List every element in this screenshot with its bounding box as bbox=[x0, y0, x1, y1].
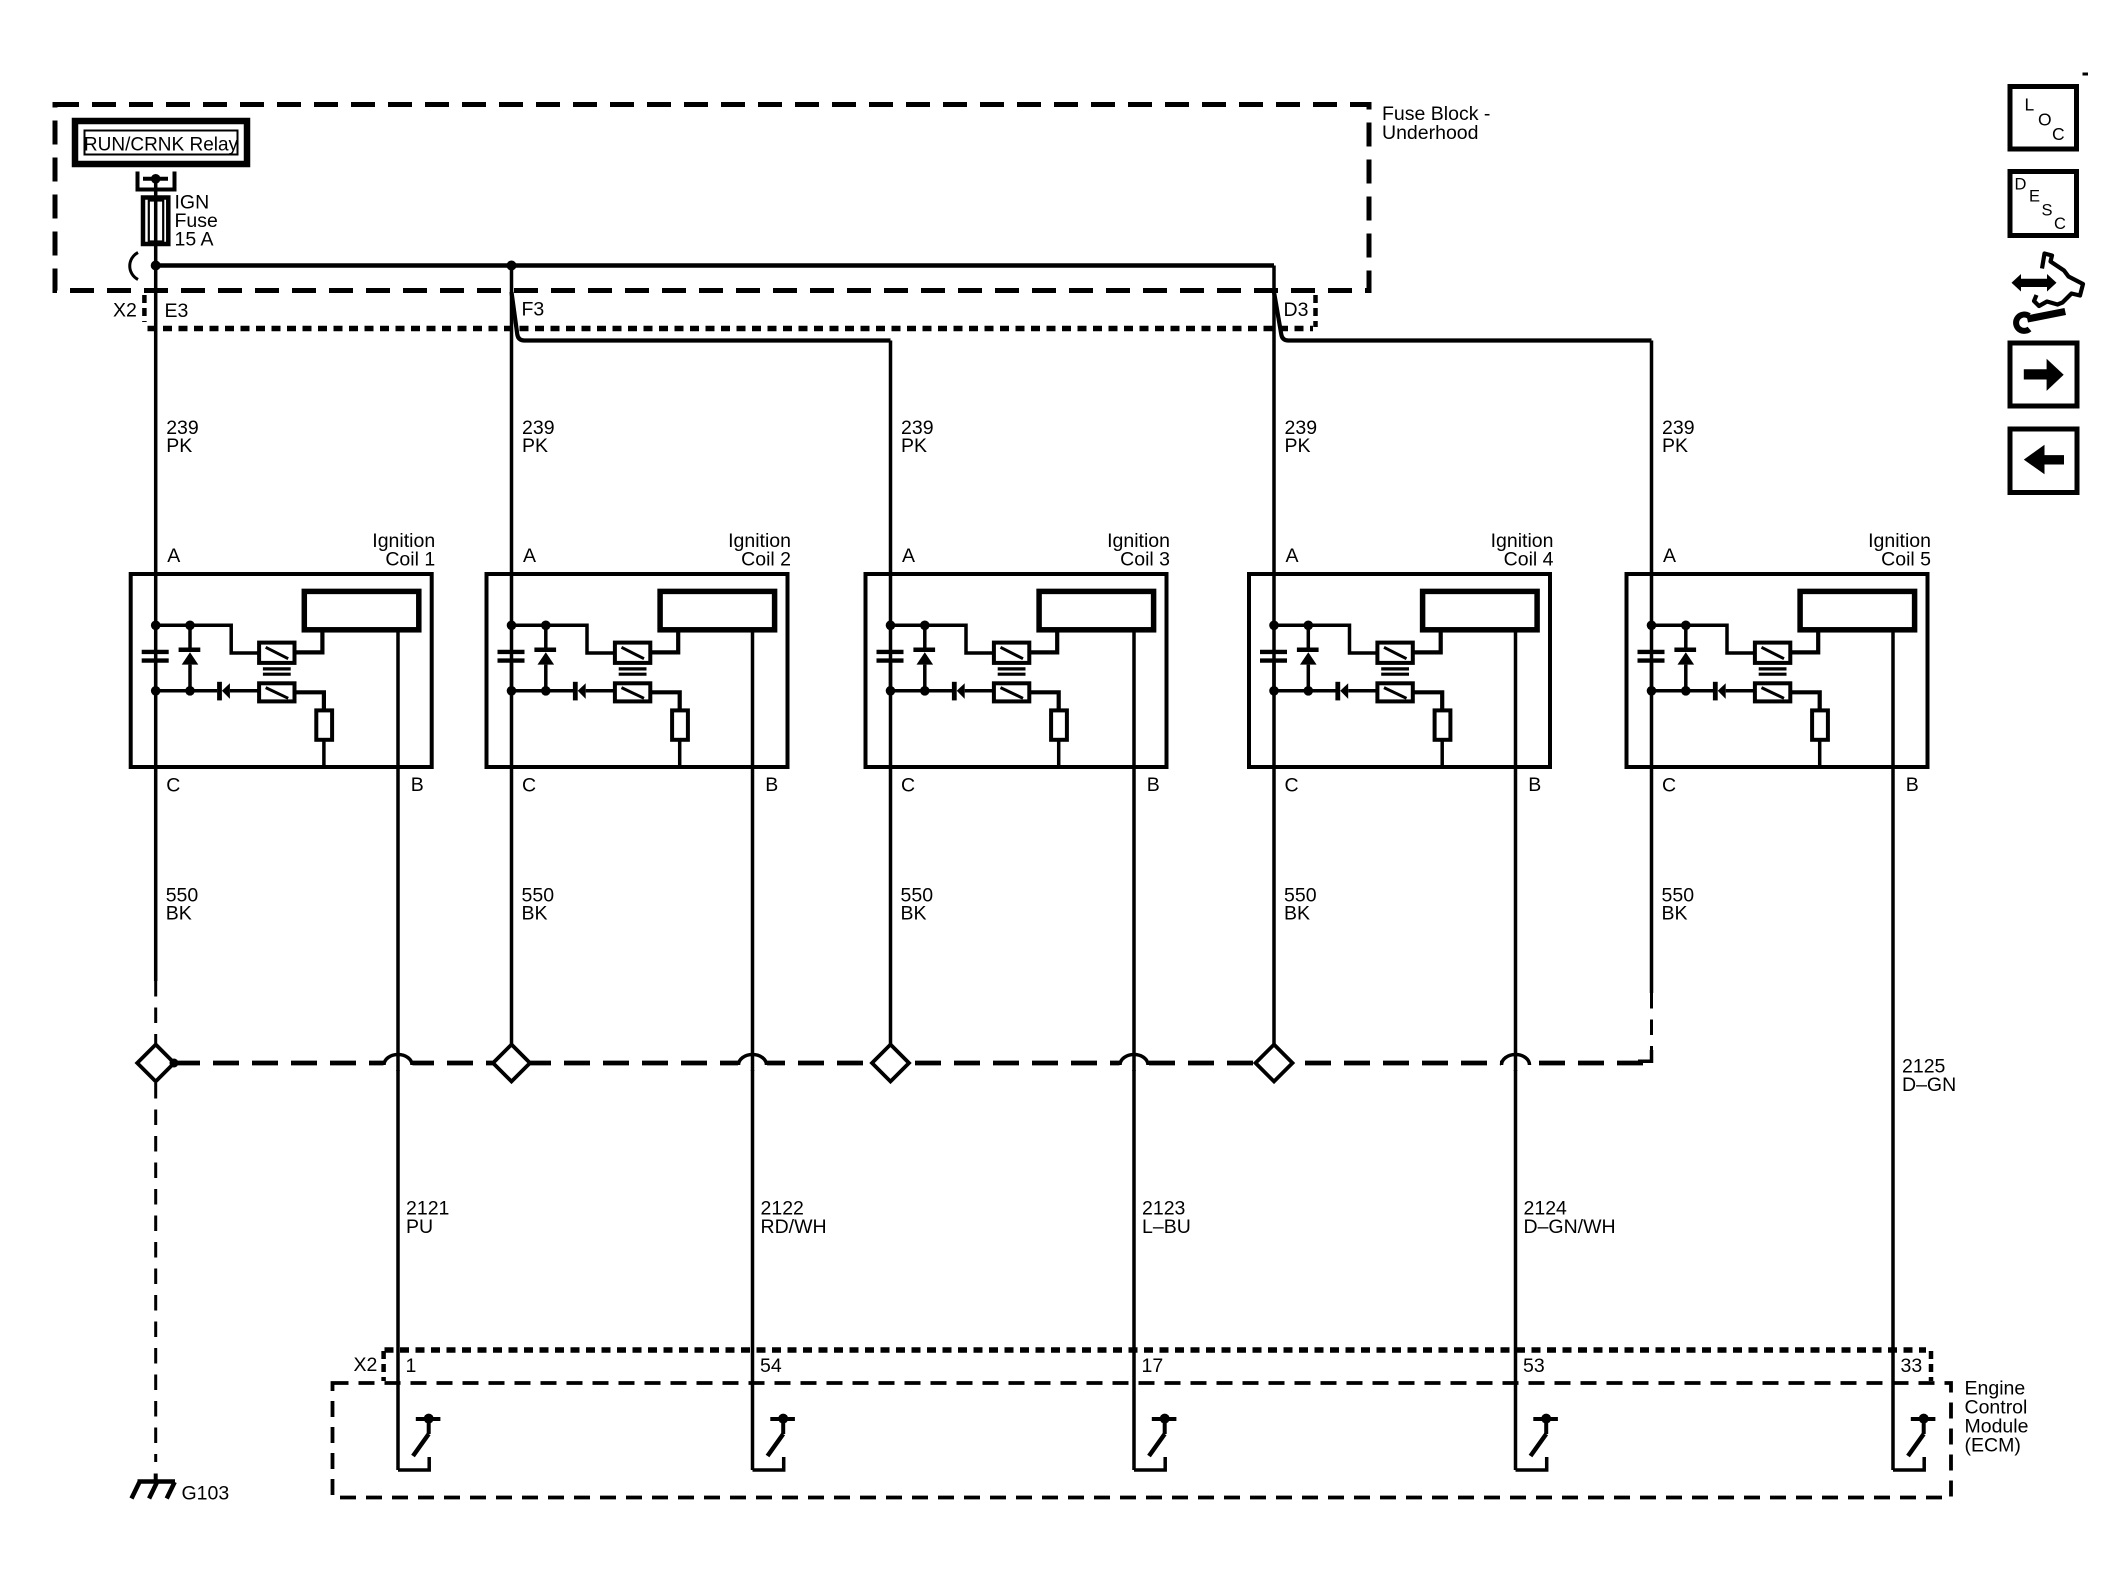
wire: ground bus continues under B wires (hops) bbox=[384, 1055, 1530, 1066]
pin 53 label (ECM) bbox=[1523, 1355, 1545, 1377]
wire: coil 1 pin B control (2121 PU) bbox=[398, 630, 429, 1470]
primary winding (coil 3) bbox=[994, 643, 1029, 663]
wire: B wires through hops bbox=[398, 1055, 1516, 1071]
label: 2124 D–GN/WH bbox=[1524, 1198, 1616, 1239]
pin C label (coil 1) bbox=[166, 775, 180, 797]
bus hop gap bbox=[738, 1056, 767, 1070]
bus hop gap bbox=[1501, 1056, 1530, 1070]
resistor (coil 1) bbox=[316, 710, 332, 739]
svg-text:A: A bbox=[1286, 545, 1299, 567]
svg-text:RUN/CRNK Relay: RUN/CRNK Relay bbox=[84, 135, 239, 156]
icon: jump to diagram (double arrow + outline + wrench) bbox=[2012, 254, 2084, 331]
resistor (coil 3) bbox=[1051, 710, 1067, 739]
svg-text:O: O bbox=[2038, 109, 2052, 129]
svg-text:D3: D3 bbox=[1284, 299, 1309, 321]
svg-text:X2: X2 bbox=[354, 1354, 378, 1376]
icon: LOC box bbox=[2010, 87, 2077, 150]
label: 239 PK (coil 3) bbox=[901, 417, 934, 457]
pin B label (coil 2) bbox=[765, 774, 778, 796]
diode (coil 1) bbox=[220, 682, 260, 701]
wire: 550 BK ground (coil 4) bbox=[1272, 767, 1276, 1045]
svg-text:A: A bbox=[902, 545, 915, 567]
splice diamond (coil 4 ground) bbox=[1256, 1045, 1293, 1082]
pin C label (coil 2) bbox=[522, 775, 536, 797]
connector X2 separator (ECM) bbox=[381, 1351, 386, 1381]
wire: D3 branch to ignition coil 5 bbox=[1274, 292, 1652, 341]
pin C label (coil 3) bbox=[901, 775, 915, 797]
connector X2 separator bbox=[142, 295, 147, 322]
zener diode (coil 2) bbox=[534, 625, 556, 691]
ECM terminal pin 17 bbox=[1149, 1414, 1176, 1456]
wire: coil 2 pin B control (2122 RD/WH) bbox=[753, 630, 784, 1470]
label: 550 BK (coil 1) bbox=[166, 885, 199, 925]
icon: back arrow box bbox=[2010, 429, 2077, 493]
secondary winding (coil 5) bbox=[1755, 683, 1790, 701]
wire: relay to IGN fuse to junction bbox=[154, 181, 158, 266]
label: Ignition Coil 3 bbox=[1107, 530, 1170, 571]
wire: primary to HV tower (coil 5) bbox=[1790, 630, 1818, 653]
svg-text:BK: BK bbox=[1662, 903, 1688, 925]
pin B label (coil 4) bbox=[1528, 774, 1541, 796]
svg-text:54: 54 bbox=[760, 1355, 782, 1377]
label: Ignition Coil 5 bbox=[1868, 530, 1931, 571]
wire: ground bus (dashed splice run) bbox=[174, 1050, 1652, 1063]
svg-text:B: B bbox=[1147, 774, 1160, 796]
svg-text:B: B bbox=[1528, 774, 1541, 796]
svg-text:BK: BK bbox=[522, 903, 548, 925]
svg-text:C: C bbox=[166, 775, 180, 797]
pin 33 label (ECM) bbox=[1901, 1355, 1923, 1377]
wire: resistor to case (coil 5) bbox=[1818, 740, 1822, 767]
svg-text:D–GN: D–GN bbox=[1902, 1074, 1956, 1096]
junction dots (coil 2) bbox=[507, 621, 551, 696]
pin B label (coil 1) bbox=[411, 774, 424, 796]
wire: secondary to resistor (coil 2) bbox=[650, 692, 679, 710]
wire: resistor to case (coil 1) bbox=[322, 740, 326, 767]
splice diamond (coil 3 ground) bbox=[872, 1045, 909, 1082]
svg-text:PU: PU bbox=[406, 1216, 433, 1238]
zener diode (coil 4) bbox=[1297, 625, 1319, 691]
svg-text:A: A bbox=[167, 545, 180, 567]
wire: resistor to case (coil 2) bbox=[678, 740, 682, 767]
resistor (coil 4) bbox=[1435, 710, 1451, 739]
primary winding (coil 1) bbox=[259, 643, 294, 663]
secondary winding (coil 3) bbox=[994, 683, 1029, 701]
ECM terminal pin 53 bbox=[1531, 1414, 1558, 1456]
svg-text:C: C bbox=[522, 775, 536, 797]
zener diode (coil 3) bbox=[913, 625, 935, 691]
junction at F3 tap bbox=[507, 261, 517, 271]
splice diamond (coil 1 ground) bbox=[137, 1045, 174, 1082]
svg-text:S: S bbox=[2042, 202, 2053, 220]
HV tower block (coil 2) bbox=[660, 591, 775, 629]
wire: 239 PK feed to ignition coil 5 bbox=[1650, 341, 1654, 768]
label: 239 PK (coil 5) bbox=[1662, 417, 1695, 457]
engine control module dashed box bbox=[333, 1383, 1952, 1498]
wire: F3 branch to ignition coil 3 bbox=[512, 292, 891, 341]
wire: primary to HV tower (coil 4) bbox=[1413, 630, 1441, 653]
wire: primary to HV tower (coil 1) bbox=[295, 630, 323, 653]
wire: 550 BK ground (coil 2) bbox=[510, 767, 514, 1045]
pin 17 label (ECM) bbox=[1142, 1355, 1164, 1377]
wire: secondary to resistor (coil 3) bbox=[1029, 692, 1058, 710]
relay K: RUN/CRNK Relay bbox=[75, 121, 247, 164]
svg-text:RD/WH: RD/WH bbox=[761, 1216, 827, 1238]
svg-text:B: B bbox=[1906, 774, 1919, 796]
svg-text:A: A bbox=[523, 545, 536, 567]
pin C label (coil 4) bbox=[1285, 775, 1299, 797]
svg-text:Coil 2: Coil 2 bbox=[741, 549, 791, 571]
core (coil 1) bbox=[263, 669, 291, 674]
relay terminal socket bbox=[138, 172, 175, 190]
svg-text:Coil 3: Coil 3 bbox=[1120, 549, 1170, 571]
wire: internal lower link (coil 5) bbox=[1652, 689, 1714, 693]
resistor (coil 2) bbox=[672, 710, 688, 739]
wire: coil 3 pin B control (2123 L–BU) bbox=[1134, 630, 1165, 1470]
fuse block underhood dashed box bbox=[55, 105, 1369, 291]
HV tower block (coil 1) bbox=[304, 591, 419, 629]
ignition coil 4 bbox=[1249, 574, 1550, 767]
zener diode (coil 1) bbox=[179, 625, 201, 691]
pin B label (coil 3) bbox=[1147, 774, 1160, 796]
label: 239 PK (coil 2) bbox=[522, 417, 555, 457]
wire: 550 BK ground (coil 3) bbox=[889, 767, 893, 1045]
svg-text:PK: PK bbox=[166, 435, 192, 457]
pin A label (coil 4) bbox=[1286, 545, 1299, 567]
ignition coil 2 bbox=[487, 574, 788, 767]
pin A label (coil 3) bbox=[902, 545, 915, 567]
wire: 550 BK ground (coil 5) bbox=[1650, 767, 1654, 1061]
svg-text:BK: BK bbox=[1284, 903, 1310, 925]
core (coil 3) bbox=[998, 669, 1026, 674]
svg-text:E: E bbox=[2029, 188, 2040, 206]
label: IGN Fuse 15 A bbox=[175, 192, 218, 251]
svg-text:BK: BK bbox=[166, 903, 192, 925]
svg-text:C: C bbox=[1662, 775, 1676, 797]
svg-text:E3: E3 bbox=[165, 300, 189, 322]
svg-text:A: A bbox=[1663, 545, 1676, 567]
terminal D3 label bbox=[1284, 299, 1309, 321]
label: Ignition Coil 4 bbox=[1491, 530, 1554, 571]
wire: internal top link (coil 2) bbox=[512, 625, 615, 653]
svg-text:Coil 4: Coil 4 bbox=[1504, 549, 1554, 571]
svg-text:17: 17 bbox=[1142, 1355, 1164, 1377]
ignition coil 3 bbox=[866, 574, 1167, 767]
label: X2 (top) bbox=[113, 300, 137, 322]
wire: internal lower link (coil 3) bbox=[891, 689, 953, 693]
label: Engine Control Module (ECM) bbox=[1965, 1378, 2029, 1457]
svg-text:C: C bbox=[1285, 775, 1299, 797]
icon: DESC box bbox=[2010, 172, 2077, 236]
svg-text:C: C bbox=[901, 775, 915, 797]
label: 2121 PU bbox=[406, 1198, 449, 1239]
pin A label (coil 2) bbox=[523, 545, 536, 567]
wire: primary to HV tower (coil 3) bbox=[1029, 630, 1057, 653]
terminal E3 label bbox=[165, 300, 189, 322]
ground G103 bbox=[132, 1474, 176, 1499]
wire: 239 PK feed to ignition coil 1 bbox=[154, 266, 158, 768]
pin 54 label (ECM) bbox=[760, 1355, 782, 1377]
label: Fuse Block - Underhood bbox=[1382, 103, 1490, 144]
label: Ignition Coil 2 bbox=[728, 530, 791, 571]
capacitor (coil 4) bbox=[1260, 652, 1287, 691]
svg-text:Coil 5: Coil 5 bbox=[1881, 549, 1931, 571]
HV tower block (coil 3) bbox=[1039, 591, 1154, 629]
label: 239 PK (coil 1) bbox=[166, 417, 199, 457]
primary winding (coil 2) bbox=[615, 643, 650, 663]
svg-text:Coil 1: Coil 1 bbox=[385, 549, 435, 571]
core (coil 2) bbox=[619, 669, 647, 674]
wire: secondary to resistor (coil 4) bbox=[1413, 692, 1442, 710]
capacitor (coil 3) bbox=[877, 652, 904, 691]
wire: main 239 PK power run bbox=[156, 263, 1274, 268]
pin 1 label (ECM) bbox=[406, 1355, 417, 1377]
ECM terminal pin 33 bbox=[1908, 1414, 1935, 1456]
page mark bbox=[2083, 73, 2089, 76]
svg-text:C: C bbox=[2052, 124, 2065, 144]
diode (coil 5) bbox=[1715, 682, 1755, 701]
svg-text:PK: PK bbox=[522, 435, 548, 457]
pin A label (coil 1) bbox=[167, 545, 180, 567]
label: Ignition Coil 1 bbox=[372, 530, 435, 571]
wire: internal lower link (coil 2) bbox=[512, 689, 574, 693]
primary winding (coil 4) bbox=[1377, 643, 1412, 663]
svg-text:PK: PK bbox=[1285, 435, 1311, 457]
svg-text:15 A: 15 A bbox=[175, 229, 214, 251]
connector separator right of pin 33 bbox=[1929, 1351, 1934, 1381]
wire: 239 PK feed to ignition coil 4 bbox=[1272, 266, 1276, 768]
junction at fuse output bbox=[151, 261, 161, 271]
wire: resistor to case (coil 4) bbox=[1440, 740, 1444, 767]
ignition coil 1 bbox=[131, 574, 432, 767]
diode (coil 3) bbox=[954, 682, 994, 701]
svg-text:D: D bbox=[2015, 176, 2027, 194]
svg-text:B: B bbox=[411, 774, 424, 796]
secondary winding (coil 2) bbox=[615, 683, 650, 701]
svg-text:L: L bbox=[2025, 94, 2035, 114]
svg-text:BK: BK bbox=[901, 903, 927, 925]
label: 2123 L–BU bbox=[1142, 1198, 1191, 1239]
svg-text:C: C bbox=[2054, 215, 2066, 233]
pin B label (coil 5) bbox=[1906, 774, 1919, 796]
connector hook at fuse block exit bbox=[130, 253, 138, 280]
label: G103 bbox=[182, 1483, 230, 1505]
junction dots (coil 5) bbox=[1647, 621, 1691, 696]
wire: secondary to resistor (coil 5) bbox=[1790, 692, 1819, 710]
HV tower block (coil 4) bbox=[1423, 591, 1538, 629]
pin C label (coil 5) bbox=[1662, 775, 1676, 797]
connector D3 separator bbox=[1313, 295, 1318, 327]
terminal F3 label bbox=[522, 299, 545, 321]
wire: resistor to case (coil 3) bbox=[1057, 740, 1061, 767]
svg-text:(ECM): (ECM) bbox=[1965, 1435, 2021, 1457]
label: 550 BK (coil 3) bbox=[901, 885, 934, 925]
wire: coil 4 pin B control (2124 D–GN/WH) bbox=[1516, 630, 1547, 1470]
secondary winding (coil 1) bbox=[259, 683, 294, 701]
pin A label (coil 5) bbox=[1663, 545, 1676, 567]
ignition coil 5 bbox=[1627, 574, 1928, 767]
fuse F: IGN Fuse 15 A bbox=[143, 198, 168, 245]
splice diamond (coil 2 ground) bbox=[493, 1045, 530, 1082]
svg-text:F3: F3 bbox=[522, 299, 545, 321]
wire: internal top link (coil 1) bbox=[156, 625, 259, 653]
wire: internal top link (coil 5) bbox=[1652, 625, 1755, 653]
svg-text:D–GN/WH: D–GN/WH bbox=[1524, 1216, 1616, 1238]
wire: 239 PK feed to ignition coil 3 bbox=[889, 341, 893, 768]
diode (coil 2) bbox=[575, 682, 615, 701]
svg-text:L–BU: L–BU bbox=[1142, 1216, 1191, 1238]
icon: forward arrow box bbox=[2010, 343, 2077, 406]
junction dot on splice diamond 1 bbox=[170, 1059, 179, 1068]
wire: internal lower link (coil 1) bbox=[156, 689, 218, 693]
wire: internal lower link (coil 4) bbox=[1274, 689, 1336, 693]
svg-text:PK: PK bbox=[901, 435, 927, 457]
label: 239 PK (coil 4) bbox=[1285, 417, 1318, 457]
capacitor (coil 5) bbox=[1638, 652, 1665, 691]
label: 2125 D-GN bbox=[1902, 1056, 1956, 1097]
wire: secondary to resistor (coil 1) bbox=[295, 692, 324, 710]
connector X2 row (ECM) dotted line bbox=[385, 1347, 1927, 1353]
label: 550 BK (coil 5) bbox=[1662, 885, 1695, 925]
svg-text:33: 33 bbox=[1901, 1355, 1923, 1377]
label: 2122 RD/WH bbox=[761, 1198, 827, 1239]
resistor (coil 5) bbox=[1812, 710, 1828, 739]
wire: internal top link (coil 4) bbox=[1274, 625, 1377, 653]
label: X2 (ECM) bbox=[354, 1354, 378, 1376]
HV tower block (coil 5) bbox=[1800, 591, 1915, 629]
svg-text:B: B bbox=[765, 774, 778, 796]
wire: 239 PK feed to ignition coil 2 bbox=[510, 266, 514, 768]
bus hop gap bbox=[1120, 1056, 1149, 1070]
label: 550 BK (coil 2) bbox=[522, 885, 555, 925]
capacitor (coil 2) bbox=[498, 652, 525, 691]
capacitor (coil 1) bbox=[142, 652, 169, 691]
connector X2 row (fuse block) dotted line bbox=[148, 326, 1314, 332]
core (coil 4) bbox=[1381, 669, 1409, 674]
svg-text:Underhood: Underhood bbox=[1382, 122, 1479, 144]
secondary winding (coil 4) bbox=[1377, 683, 1412, 701]
svg-text:X2: X2 bbox=[113, 300, 137, 322]
zener diode (coil 5) bbox=[1674, 625, 1696, 691]
junction dots (coil 4) bbox=[1269, 621, 1313, 696]
wire: coil 5 pin B control (2125 D–GN) bbox=[1893, 630, 1924, 1470]
wire: 550 BK ground (coil 1) bbox=[154, 767, 158, 1045]
ECM terminal pin 54 bbox=[768, 1414, 795, 1456]
junction dots (coil 1) bbox=[151, 621, 195, 696]
wire: internal top link (coil 3) bbox=[891, 625, 994, 653]
svg-text:1: 1 bbox=[406, 1355, 417, 1377]
diode (coil 4) bbox=[1338, 682, 1378, 701]
svg-text:G103: G103 bbox=[182, 1483, 230, 1505]
svg-text:53: 53 bbox=[1523, 1355, 1545, 1377]
wire: ground run to G103 bbox=[154, 1083, 157, 1462]
primary winding (coil 5) bbox=[1755, 643, 1790, 663]
ECM terminal pin 1 bbox=[413, 1414, 440, 1456]
junction dots (coil 3) bbox=[886, 621, 930, 696]
label: 550 BK (coil 4) bbox=[1284, 885, 1317, 925]
bus hop gap bbox=[384, 1056, 413, 1070]
wire: primary to HV tower (coil 2) bbox=[650, 630, 678, 653]
svg-text:PK: PK bbox=[1662, 435, 1688, 457]
core (coil 5) bbox=[1759, 669, 1787, 674]
